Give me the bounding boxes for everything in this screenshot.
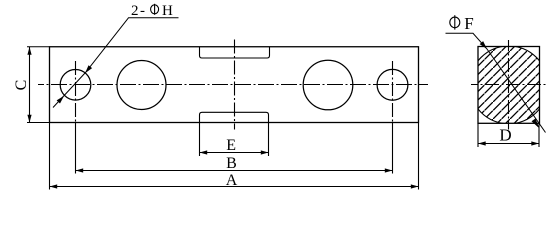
hole left small [60, 70, 91, 101]
dim A line [50, 186, 419, 188]
label PhiF phi symbol [454, 15, 456, 29]
dim D line [478, 143, 539, 145]
svg-text:E: E [226, 137, 236, 154]
top slot [200, 47, 270, 58]
dim E arrow left [200, 150, 208, 154]
dim C extension top [27, 46, 50, 48]
dim B line [76, 170, 393, 172]
extension line B right [392, 123, 394, 174]
svg-text:F: F [464, 14, 473, 33]
dim E arrow right [261, 150, 269, 154]
leader PhiF [446, 33, 546, 132]
dim E extension right [268, 123, 270, 157]
centerline middle vertical [234, 40, 236, 130]
dim E line [200, 152, 269, 154]
centerline side vertical [508, 40, 510, 130]
extension line B left [75, 123, 77, 174]
centerline right hole vertical [392, 61, 394, 123]
svg-text:H: H [162, 3, 173, 19]
svg-text:2-: 2- [131, 3, 147, 19]
dim D arrow right [531, 141, 539, 145]
leader PhiF arrow upper [480, 41, 487, 49]
hole right large [303, 60, 353, 110]
dim E extension left [199, 123, 201, 157]
leader 2-PhiH [53, 18, 179, 108]
svg-text:C: C [13, 80, 30, 91]
hole right small [377, 69, 408, 100]
leader PhiF arrow lower [532, 119, 540, 129]
leader arrow lower [57, 96, 64, 104]
section bar circle hatched [470, 46, 548, 124]
label 2-PhiH phi symbol [154, 4, 156, 15]
bottom slot [200, 112, 269, 122]
hole left large [117, 61, 166, 110]
dim D arrow left [478, 141, 486, 145]
svg-text:A: A [226, 172, 238, 189]
extension line A right [418, 123, 420, 190]
centerline horizontal main [38, 84, 428, 86]
dim B arrow right [385, 168, 393, 172]
section square side view [478, 47, 540, 124]
dim C arrow top [27, 47, 31, 55]
dim A arrow right [411, 184, 419, 188]
dim B arrow left [76, 168, 84, 172]
svg-text:B: B [226, 155, 237, 172]
dim D extension right [538, 123, 540, 147]
body outline front view [50, 47, 419, 123]
dim C line [29, 47, 31, 123]
dim C arrow bottom [27, 115, 31, 123]
centerline side horizontal [471, 84, 547, 86]
svg-text:D: D [499, 125, 511, 144]
dim D extension left [477, 123, 479, 147]
dim A arrow left [50, 184, 58, 188]
dim C extension bottom [27, 122, 50, 124]
extension line A left [49, 123, 51, 190]
centerline left hole vertical [75, 61, 77, 123]
leader arrow upper [85, 65, 92, 73]
